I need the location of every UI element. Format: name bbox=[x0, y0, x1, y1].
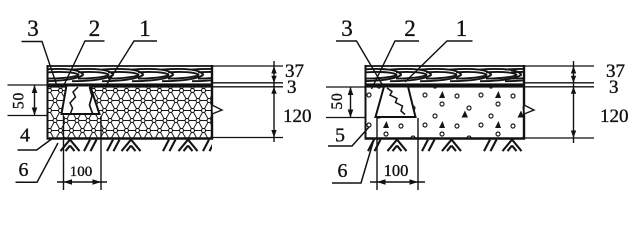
svg-text:100: 100 bbox=[70, 164, 93, 180]
svg-text:50: 50 bbox=[329, 92, 346, 109]
svg-text:4: 4 bbox=[20, 125, 30, 147]
svg-text:1: 1 bbox=[139, 16, 151, 41]
svg-text:100: 100 bbox=[384, 161, 409, 180]
svg-text:120: 120 bbox=[283, 106, 312, 127]
svg-text:6: 6 bbox=[19, 159, 29, 181]
svg-text:6: 6 bbox=[338, 160, 348, 182]
svg-text:3: 3 bbox=[287, 77, 297, 98]
svg-text:2: 2 bbox=[404, 16, 416, 41]
svg-text:3: 3 bbox=[341, 16, 353, 41]
svg-text:120: 120 bbox=[600, 106, 629, 127]
svg-text:2: 2 bbox=[89, 16, 101, 41]
svg-text:1: 1 bbox=[456, 16, 468, 41]
svg-text:3: 3 bbox=[609, 77, 619, 98]
svg-text:3: 3 bbox=[27, 16, 39, 41]
svg-text:5: 5 bbox=[335, 125, 345, 147]
svg-text:50: 50 bbox=[11, 92, 28, 109]
